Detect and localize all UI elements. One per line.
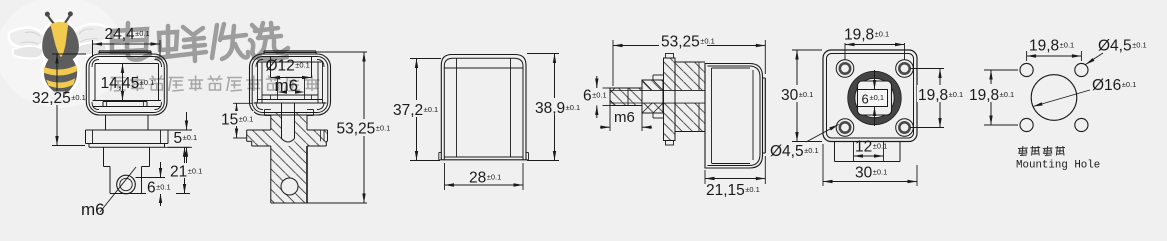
view4 step section <box>653 74 664 76</box>
watermark text 电蜂优选 <box>112 23 288 61</box>
view1 m6 hole circle <box>117 175 136 194</box>
view6 hole BL <box>1020 118 1033 131</box>
view4 neck collar <box>698 62 700 90</box>
view1 lower stub <box>109 167 111 194</box>
dimension 28 bottom <box>444 163 446 190</box>
view1 cap interior top line <box>95 63 159 65</box>
svg-text:±0.1: ±0.1 <box>487 173 502 182</box>
svg-text:53,25: 53,25 <box>661 34 700 51</box>
view1 flange lower band <box>88 144 90 148</box>
svg-text:19,8: 19,8 <box>844 27 874 44</box>
dimension 19,8 view5 top <box>844 43 846 60</box>
view1 cap inner outline <box>89 57 164 113</box>
label dia4,5 view6 <box>1086 53 1104 65</box>
svg-text:28: 28 <box>469 170 486 187</box>
svg-text:6: 6 <box>583 88 592 105</box>
dimension 24,4 top <box>92 40 94 57</box>
dimension 15 left <box>233 102 252 104</box>
svg-text:6: 6 <box>862 92 869 107</box>
label dia4,5 view5 <box>806 125 839 143</box>
view2 cap top plateau <box>264 50 316 52</box>
view5 inner square <box>858 81 892 115</box>
view4 neck <box>675 62 705 90</box>
svg-text:38,9: 38,9 <box>535 100 565 117</box>
view2 hatch right wing <box>307 130 328 146</box>
view2 interior top line <box>258 61 323 63</box>
svg-text:19,8: 19,8 <box>1029 38 1059 55</box>
view4 cap interior lines <box>711 68 713 163</box>
svg-text:±0.1: ±0.1 <box>188 167 203 176</box>
view1 cap interior bottom lines <box>93 100 162 102</box>
svg-text:±0.1: ±0.1 <box>592 91 607 100</box>
watermark glow behind bee logo <box>0 0 124 108</box>
dimension 30 view5 left <box>792 49 822 51</box>
dimension 19,8 view6 top <box>1026 51 1028 61</box>
svg-text:15: 15 <box>221 112 238 129</box>
svg-text:±0.1: ±0.1 <box>799 90 814 99</box>
view3 inner walls <box>456 58 458 157</box>
view2 bore walls dia12 <box>270 57 272 78</box>
dimension 6 view4 left <box>603 87 612 89</box>
view3 cap second outline <box>444 58 523 160</box>
svg-text:30: 30 <box>855 165 873 182</box>
label m6 view1 <box>100 167 136 212</box>
svg-text:±0.1: ±0.1 <box>135 29 150 38</box>
svg-text:21,15: 21,15 <box>706 182 745 199</box>
view3 inner top line <box>444 67 523 69</box>
dimension 19,8 view5 right <box>910 68 944 70</box>
svg-text:32,25: 32,25 <box>32 90 71 107</box>
svg-text:30: 30 <box>781 87 799 104</box>
svg-text:±0.1: ±0.1 <box>156 183 171 192</box>
view5 central ring <box>848 71 901 124</box>
svg-text:±0.1: ±0.1 <box>295 61 310 70</box>
view2 hatch left wing <box>247 130 271 146</box>
svg-text:±0.1: ±0.1 <box>1060 41 1075 50</box>
dimension 21,15 view4 bottom <box>704 170 706 184</box>
svg-text:±0.1: ±0.1 <box>376 124 391 133</box>
view4 m6 stub <box>610 88 642 106</box>
view2 neck step blocks <box>265 109 271 111</box>
view5 corner hole BL <box>836 119 854 137</box>
svg-text:53,25: 53,25 <box>337 121 376 138</box>
svg-text:37,2: 37,2 <box>393 102 423 119</box>
svg-text:±0.1: ±0.1 <box>700 37 715 46</box>
dimension 53,25 view2 <box>316 51 367 53</box>
view4 bore lines <box>642 89 705 91</box>
dimension 53,25 view4 top <box>612 40 614 86</box>
view4 hex section <box>642 80 663 90</box>
svg-text:14,45: 14,45 <box>101 75 140 92</box>
svg-text:Ø4,5: Ø4,5 <box>1098 38 1132 55</box>
view1 cap interior step <box>103 101 147 103</box>
view1 flange <box>86 129 169 131</box>
dimension 12 view5 <box>854 155 884 157</box>
dimension 5 flange right <box>168 129 192 131</box>
svg-text:Mounting Hole: Mounting Hole <box>1016 160 1100 172</box>
svg-text:m6: m6 <box>81 200 105 219</box>
view5 square flange inner <box>827 54 914 139</box>
dimension 14,45 inside cap <box>122 64 124 101</box>
view5 square flange outer <box>823 50 917 142</box>
view2 hatch right region <box>295 113 307 203</box>
view3 bottom corner steps <box>439 152 442 154</box>
svg-text:±0.1: ±0.1 <box>424 105 439 114</box>
dimension 30 view5 bottom <box>822 144 824 186</box>
view6 hole BR <box>1075 118 1088 131</box>
svg-text:Ø4,5: Ø4,5 <box>770 143 804 160</box>
view3 bottom line <box>444 156 523 158</box>
svg-text:21: 21 <box>170 164 187 181</box>
svg-text:m6: m6 <box>614 109 635 126</box>
svg-text:±0.1: ±0.1 <box>1000 90 1015 99</box>
svg-text:19,8: 19,8 <box>918 87 948 104</box>
svg-text:±0.1: ±0.1 <box>140 78 155 87</box>
view1 cap outer outline <box>86 54 167 115</box>
svg-text:±0.1: ±0.1 <box>183 133 198 142</box>
dimension 38,9 right <box>527 53 559 55</box>
view2 interior walls <box>257 62 259 103</box>
view1 cap top plateau <box>99 50 151 52</box>
view2 interior bottom lines <box>262 94 318 96</box>
svg-text:±0.1: ±0.1 <box>239 115 254 124</box>
svg-text:19,8: 19,8 <box>969 87 999 104</box>
watermark subtitle 原厂直采电子连接器商城 <box>111 76 320 92</box>
view4 cap right plateau <box>764 78 766 153</box>
svg-text:±0.1: ±0.1 <box>71 93 86 102</box>
view2 hatch left region <box>271 113 282 203</box>
view2 right wing outline <box>307 129 328 131</box>
view5 center dim 6 <box>874 70 876 90</box>
svg-text:±0.1: ±0.1 <box>566 103 581 112</box>
view6 hole TL <box>1020 63 1033 76</box>
dimension dia12 <box>271 77 312 79</box>
view2 m6 hole circle white <box>281 178 298 195</box>
label dia16 view6 <box>1033 90 1090 107</box>
view2 interior bottom steps <box>270 95 272 100</box>
svg-text:Ø16: Ø16 <box>1092 77 1121 94</box>
view1 cap interior walls <box>94 64 96 101</box>
view4 flange fin <box>664 58 676 90</box>
view4 cap outline <box>705 64 763 169</box>
view1 upper body <box>103 147 105 166</box>
view2 body outline <box>270 146 272 203</box>
view2 bore m6 section <box>281 103 283 139</box>
svg-text:±0.1: ±0.1 <box>873 142 888 151</box>
svg-text:24,4: 24,4 <box>105 26 136 43</box>
bee logo <box>8 8 113 102</box>
svg-text:±0,1: ±0,1 <box>870 93 885 102</box>
view3 cap outer outline <box>441 55 526 160</box>
svg-text:±0.1: ±0.1 <box>875 30 890 39</box>
dimension 19,8 view6 left <box>984 69 1018 71</box>
view6 hole TR <box>1075 63 1088 76</box>
label mounting hole CN <box>1018 146 1065 156</box>
view2 thread walls m6 <box>277 78 279 96</box>
view6 big circle dia16 <box>1031 75 1077 121</box>
view2 left wing outline <box>247 129 271 131</box>
dimension 21 right <box>165 146 191 148</box>
svg-text:6: 6 <box>147 180 156 197</box>
view5 bottom stub <box>834 142 836 162</box>
dimension m6 view4 <box>609 106 611 132</box>
dimension 32,25 left <box>52 53 86 55</box>
svg-text:±0.1: ±0.1 <box>745 185 760 194</box>
view2 hatch center lower <box>282 146 295 203</box>
view1 neck <box>105 115 107 130</box>
svg-text:5: 5 <box>174 130 183 147</box>
view2 cap inner outline <box>252 57 328 113</box>
svg-text:±0.1: ±0.1 <box>1122 80 1137 89</box>
dimension 37,2 left <box>410 58 441 60</box>
svg-text:±0.1: ±0.1 <box>873 168 888 177</box>
svg-text:±0.1: ±0.1 <box>1132 41 1147 50</box>
view5 corner hole BR <box>896 119 914 137</box>
view1 cap corner arcs <box>92 60 99 68</box>
svg-text:12: 12 <box>855 139 872 156</box>
dimension 6 hole <box>136 177 166 179</box>
view5 corner hole TL <box>836 60 854 78</box>
view2 neck walls <box>270 115 272 130</box>
svg-text:±0.1: ±0.1 <box>949 90 964 99</box>
svg-text:±0.1: ±0.1 <box>804 146 819 155</box>
view2 cap corner arcs <box>256 60 263 68</box>
view5 corner hole TR <box>896 60 914 78</box>
view2 cap outer outline <box>250 54 331 115</box>
svg-text:Ø12: Ø12 <box>266 58 295 75</box>
